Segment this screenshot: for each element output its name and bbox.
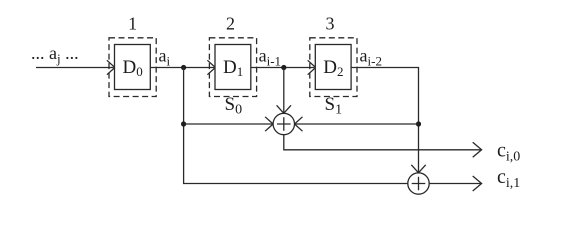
- input signal label ...a_j...: [31, 43, 79, 66]
- wire XOR X2 output to c_i,1: [429, 183, 480, 185]
- arrowhead into XOR X1 left: [265, 117, 273, 131]
- wire a_i-1 tap down to XOR X1: [283, 68, 285, 113]
- junction node a_i: [181, 65, 186, 70]
- arrowhead into D1 pin: [207, 60, 215, 74]
- svg-text:ai-2: ai-2: [360, 46, 382, 69]
- register D2: [315, 45, 351, 90]
- svg-text:2: 2: [226, 13, 235, 33]
- dashed box stage 3: [310, 38, 357, 97]
- arrowhead into D0 pin: [107, 60, 115, 74]
- junction node a_i-1: [281, 65, 286, 70]
- XOR adder X1: [273, 113, 294, 134]
- arrowhead into XOR X1 top: [277, 105, 291, 113]
- register D1: [215, 45, 251, 90]
- svg-text:ci,0: ci,0: [497, 140, 520, 165]
- wire D1 to D2: [251, 67, 314, 69]
- wire D0 to D1: [150, 67, 214, 69]
- arrowhead into D2 pin: [308, 60, 316, 74]
- wire input to D0: [36, 67, 114, 69]
- wire a_i tap to XOR X1 left: [184, 123, 273, 125]
- arrowhead output c_i,1: [473, 176, 482, 191]
- wire a_i tap down and right to XOR X2: [184, 68, 408, 184]
- junction node a_i-2 tap: [416, 121, 421, 126]
- XOR X2 plus sign: [412, 177, 426, 191]
- svg-text:ai: ai: [159, 46, 171, 69]
- arrowhead into XOR X1 right: [295, 117, 303, 131]
- dashed box stage 2: [209, 38, 256, 97]
- register D0: [115, 45, 151, 90]
- svg-text:ci,1: ci,1: [497, 166, 520, 191]
- svg-text:S1: S1: [325, 94, 343, 118]
- dashed box stage 1: [109, 38, 156, 97]
- svg-text:ai-1: ai-1: [259, 46, 281, 69]
- arrowhead output c_i,0: [473, 142, 482, 157]
- XOR X1 plus sign: [277, 117, 291, 131]
- XOR adder X2: [408, 173, 429, 194]
- svg-text:3: 3: [326, 13, 335, 33]
- wire a_i-2 tap to XOR X1 right: [295, 123, 418, 125]
- wire XOR X1 output down right to c_i,0: [284, 135, 481, 150]
- junction node a_i lower tap: [181, 121, 186, 126]
- svg-text:S0: S0: [225, 94, 243, 118]
- arrowhead into XOR X2 top: [411, 165, 425, 173]
- svg-text:... aj ...: ... aj ...: [31, 43, 79, 66]
- svg-text:1: 1: [128, 13, 137, 33]
- wire D2 output right then down to XOR X2: [351, 68, 418, 173]
